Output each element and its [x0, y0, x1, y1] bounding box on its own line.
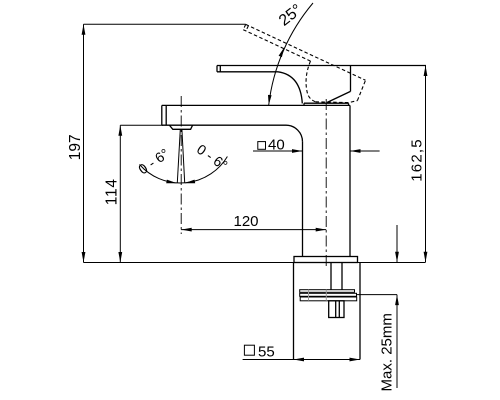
dimension max25 upper line — [396, 225, 398, 262]
washer extension line — [357, 294, 398, 296]
svg-text:Max. 25mm: Max. 25mm — [378, 313, 395, 391]
nut inner line 1 — [335, 301, 337, 318]
raised handle back edge (dashed) — [357, 80, 365, 100]
raised handle front curve (dashed) — [306, 61, 315, 102]
dimension max25 up arrow — [395, 295, 399, 306]
dimension 114 arrow up — [118, 125, 122, 136]
dimension sq55 left arrow — [294, 358, 305, 362]
raised handle tip cap inner (dashed) — [246, 26, 249, 31]
dimension max25 down arrow — [395, 252, 399, 262]
nut inner line 2 — [338, 301, 340, 318]
washer tick line 2 — [325, 290, 327, 301]
dimension 197 arrow down — [82, 252, 86, 263]
dimension sq55 right arrow — [350, 358, 361, 362]
handle tip cap — [216, 66, 218, 72]
aerator — [169, 125, 192, 129]
raised handle lever top edge (dashed) — [246, 24, 366, 80]
spout left cap inner line — [165, 105, 167, 125]
handle bottom line — [217, 71, 278, 73]
svg-text:40: 40 — [268, 137, 285, 154]
body right edge — [349, 105, 351, 256]
svg-text:120: 120 — [233, 213, 258, 230]
dimension 120 right arrow — [316, 228, 327, 232]
handle front corner curve — [278, 72, 302, 104]
dimension 162,5 arrow up — [424, 66, 428, 77]
dimension sq40 left arrow — [292, 149, 303, 153]
shank right line — [341, 263, 343, 290]
swivel arc right arrow — [184, 180, 195, 184]
dimension max25 lower line — [396, 295, 398, 388]
dimension 114 line — [119, 125, 121, 262]
spout top line — [162, 104, 350, 106]
washer plate 1 — [300, 290, 355, 293]
flange — [294, 257, 358, 263]
top extension line — [84, 23, 246, 25]
dimension 162,5 line — [425, 66, 427, 263]
under-counter box right edge — [359, 263, 361, 360]
svg-text:197: 197 — [67, 134, 84, 160]
25 degree arc — [269, 3, 313, 105]
spout corner arc — [286, 125, 303, 142]
dimension 162,5 arrow down — [424, 252, 428, 262]
dimension sq40 right line — [350, 150, 380, 152]
raised handle lever bottom edge (dashed) — [243, 30, 310, 61]
dimension sq55 line — [243, 359, 360, 361]
dimension 120 line — [181, 229, 326, 231]
raised handle bottom edge (dashed) — [316, 101, 358, 103]
svg-text:55: 55 — [258, 343, 275, 360]
dimension sq40 left line — [253, 150, 303, 152]
dimension sq40 right arrow — [350, 149, 361, 153]
sliver right end — [348, 103, 350, 105]
spout left cap — [161, 105, 163, 125]
label sq40 square symbol — [258, 142, 266, 150]
swivel arc left arrow — [166, 180, 177, 184]
dimension 197 line — [83, 24, 85, 262]
washer plate 2 — [300, 293, 357, 296]
25 degree arc upper arrow — [279, 47, 285, 57]
nut — [329, 301, 344, 318]
body centerline — [325, 99, 327, 267]
spout bottom line — [162, 124, 286, 126]
aerator centerline — [180, 96, 182, 234]
dimension 114 arrow down — [118, 252, 122, 263]
shank left line — [330, 263, 332, 290]
raised handle tip cap (dashed) — [243, 24, 245, 29]
under-counter box left edge — [293, 263, 295, 360]
swivel arc 0-6 — [140, 157, 228, 184]
label sq55 square symbol — [244, 345, 254, 355]
counter line — [84, 262, 426, 264]
handle back chamfer — [327, 91, 351, 102]
dimension 197 arrow up — [82, 24, 86, 35]
washer plate 3 — [300, 297, 357, 301]
body left edge — [302, 142, 304, 257]
spray cone right line — [182, 129, 185, 183]
sliver left end — [303, 103, 305, 105]
spout bottom extension line — [120, 124, 163, 126]
handle back edge — [350, 66, 352, 92]
handle top line with 162,5 extension — [217, 65, 426, 67]
handle tip cap inner line — [219, 66, 221, 72]
svg-text:162,5: 162,5 — [408, 138, 425, 182]
25 degree arc bottom arrow — [268, 95, 272, 105]
washer tick line 1 — [308, 290, 310, 301]
svg-text:114: 114 — [103, 178, 120, 205]
spray cone left line — [177, 129, 180, 183]
handle base bottom sliver — [304, 102, 349, 104]
dimension 120 left arrow — [181, 228, 192, 232]
